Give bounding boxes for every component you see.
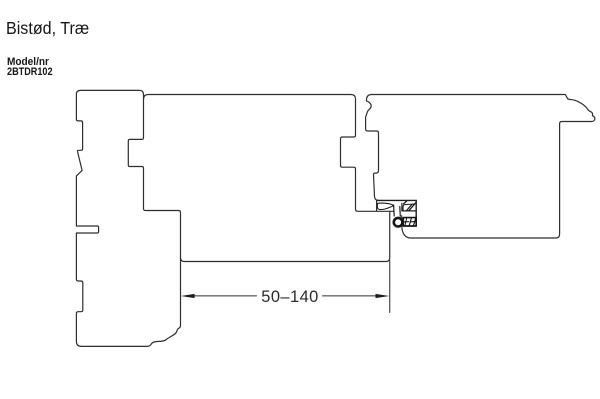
hatched seal section in bar [402,201,416,211]
middle frame member outline [144,95,390,262]
label 2BTDR102 [7,66,53,78]
left frame profile outline [76,90,180,346]
weatherstrip flipper leaf [377,203,392,209]
hatched seal block right of bulb [403,218,416,226]
dimension line right segment [323,295,377,297]
weatherstrip neck left line [393,205,396,216]
weatherstrip bulb circle [394,218,403,227]
weatherstrip carrier bar top edge [377,199,416,201]
weatherstrip bar bottom segment to neck [390,210,394,212]
dimension arrow left [181,294,195,298]
weatherstrip neck right line [399,207,402,217]
weatherstrip carrier bar left edge [376,201,378,211]
dimension line left segment [194,295,257,297]
dimension arrow right [376,294,390,298]
dimension extension line right [389,261,391,313]
label Model/nr [7,56,49,68]
weatherstrip groove inner wall and block bottom [403,200,416,226]
title: Bistød, Træ [6,18,89,39]
svg-text:50–140: 50–140 [261,288,318,306]
right door-leaf profile outline [366,95,595,239]
